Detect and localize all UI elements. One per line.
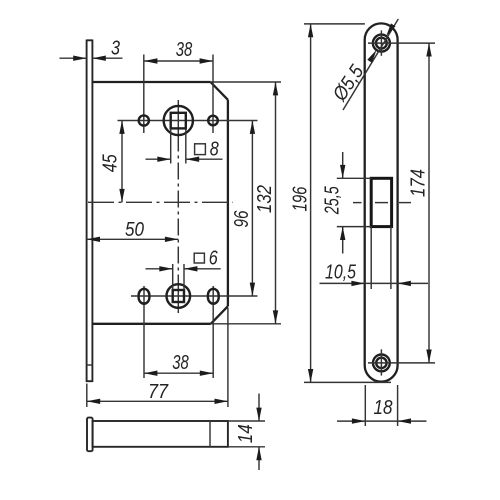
- svg-text:174: 174: [408, 169, 430, 197]
- dim 25,5 line: [342, 152, 344, 178]
- dim 14 line: [258, 394, 260, 422]
- faceplate bottom cap: [87, 380, 93, 382]
- top screw hole outer: [373, 35, 390, 52]
- dim 77 extension left: [86, 384, 88, 408]
- latch extension left bottom: [337, 226, 371, 228]
- dim 10,5 arrows: [351, 281, 364, 286]
- svg-text:8: 8: [210, 139, 219, 161]
- dim 6 square symbol: [194, 253, 204, 263]
- svg-text:96: 96: [231, 210, 253, 228]
- dim 77 arrows: [87, 399, 100, 404]
- body bottom edge: [92, 323, 210, 325]
- svg-text:14: 14: [235, 424, 257, 443]
- dim Ø5,5 leader: [343, 19, 398, 110]
- faceplate left edge: [86, 40, 88, 383]
- body top edge: [92, 81, 210, 83]
- centerline horizontal lower holes: [131, 295, 258, 297]
- lower right slot: [208, 289, 219, 304]
- dim 196 arrows: [308, 24, 313, 37]
- svg-text:38: 38: [172, 352, 189, 374]
- latch centerline: [353, 202, 362, 204]
- side body bar: [93, 421, 228, 447]
- dim 18 extension right: [397, 385, 399, 426]
- plate outline: [365, 23, 398, 381]
- centerline upper-right hole vertical: [212, 55, 214, 134]
- dim 14 arrows: [256, 408, 261, 421]
- dim 38 bottom line: [144, 372, 213, 374]
- side faceplate: [87, 418, 93, 452]
- dim 50 arrows: [87, 237, 100, 242]
- dim 38 top line: [144, 60, 213, 62]
- centerline lower-right hole vertical: [212, 286, 214, 378]
- bottom screw hole centerline h: [368, 362, 435, 364]
- dim 14 extension top: [228, 420, 265, 422]
- dim 96 arrows: [250, 121, 255, 134]
- faceplate right edge / body left edge: [91, 40, 93, 383]
- faceplate inner tick: [87, 364, 93, 366]
- dim 196 line: [310, 24, 312, 383]
- bottom-right chamfer: [211, 306, 228, 324]
- lower square 6mm: [173, 290, 184, 302]
- centerline horizontal upper holes: [118, 120, 258, 122]
- dim 6 arrows: [159, 266, 172, 271]
- svg-text:77: 77: [148, 381, 169, 403]
- lower left slot: [139, 289, 150, 304]
- dim 132 line: [275, 82, 277, 324]
- top-right chamfer: [211, 82, 228, 100]
- dim 77 line: [87, 400, 228, 402]
- dim 3 arrows: [73, 56, 86, 61]
- dim 132 arrows: [273, 82, 278, 95]
- dim 132 extension top: [211, 81, 282, 83]
- upper square 8mm: [171, 113, 186, 129]
- centerline horizontal middle (dash-dot): [88, 201, 233, 203]
- dim 25,5 arrows: [340, 165, 345, 178]
- svg-text:38: 38: [176, 39, 193, 61]
- side bar inner line: [209, 421, 211, 447]
- dim 8 arrows: [157, 157, 170, 162]
- dim 10,5 line: [320, 282, 429, 284]
- upper right hole: [208, 116, 218, 126]
- top screw hole centerline h: [368, 42, 435, 44]
- dim 174 line: [428, 43, 430, 363]
- centerline lower-left hole vertical: [143, 286, 145, 378]
- svg-text:196: 196: [290, 186, 312, 212]
- top screw hole centerline v: [380, 30, 382, 55]
- centerline vertical big holes (dash-dot): [177, 135, 179, 283]
- dim Ø5,5 arrows: [386, 23, 395, 36]
- lower big hole: [167, 284, 191, 308]
- dim 3 line: [60, 57, 87, 59]
- latch extension left top: [337, 177, 371, 179]
- extension lines lower square: [172, 264, 174, 290]
- dim 8 line: [146, 158, 171, 160]
- dim 38 bottom arrows: [144, 371, 157, 376]
- svg-text:18: 18: [374, 397, 393, 419]
- latch hole: [371, 178, 391, 226]
- upper left hole: [139, 115, 149, 125]
- svg-text:6: 6: [209, 247, 219, 269]
- body right edge: [227, 100, 229, 306]
- upper big hole: [164, 106, 193, 135]
- bottom screw hole centerline v: [380, 349, 382, 375]
- svg-text:10,5: 10,5: [325, 262, 357, 284]
- latch extensions down: [370, 227, 372, 289]
- centerline upper-left hole vertical: [143, 55, 145, 134]
- bottom screw hole inner: [376, 358, 386, 368]
- svg-text:132: 132: [254, 185, 276, 213]
- bottom screw hole outer: [373, 355, 390, 372]
- dim 50 line: [87, 238, 179, 240]
- svg-text:25,5: 25,5: [322, 186, 344, 215]
- dim 196 extension top: [304, 23, 365, 25]
- dim 45 line: [121, 121, 123, 203]
- dim 132 extension bottom: [211, 323, 281, 325]
- svg-text:50: 50: [125, 219, 144, 241]
- centerline vertical big holes upper solid: [177, 100, 179, 135]
- extension lines upper square: [170, 128, 172, 163]
- dim 18 line: [337, 420, 427, 422]
- dim 18 arrows: [352, 418, 365, 423]
- dim 14 extension bottom: [228, 446, 265, 448]
- dim 8 square symbol: [195, 144, 206, 155]
- dim 196 extension bottom: [304, 381, 391, 383]
- centerline vertical big holes lower solid: [177, 282, 179, 313]
- dim 38 arrows: [144, 58, 157, 63]
- dim 174 arrows: [426, 43, 431, 56]
- dim 18 extension left: [364, 385, 366, 426]
- svg-text:3: 3: [111, 38, 120, 60]
- faceplate top cap: [87, 39, 93, 41]
- dim 77 extension right: [227, 308, 229, 407]
- dim 96 line: [251, 121, 253, 297]
- dim 6 line: [146, 268, 173, 270]
- svg-text:45: 45: [100, 154, 122, 173]
- top screw hole inner: [376, 38, 387, 49]
- dim 45 arrows: [119, 121, 124, 134]
